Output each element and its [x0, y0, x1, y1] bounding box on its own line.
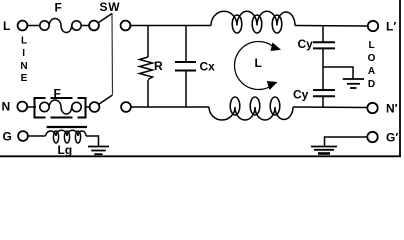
switch SW link bar [111, 13, 114, 95]
wire Lg to ground [86, 136, 99, 146]
capacitor Cy bottom plates [313, 90, 335, 96]
svg-text:D: D [368, 79, 375, 90]
terminal N' [367, 103, 377, 113]
choke L flux arrow [234, 42, 281, 90]
label Cy bottom [293, 88, 309, 102]
wire fuse to switch [81, 25, 89, 27]
resistor R [140, 57, 153, 80]
label F (bottom fuse) [54, 87, 61, 101]
svg-text:E: E [21, 73, 28, 84]
svg-text:Cx: Cx [200, 60, 216, 74]
ground (Cy midpoint) [343, 79, 364, 88]
svg-text:L: L [3, 19, 10, 33]
label F (top fuse) [55, 1, 62, 15]
label L (choke) [255, 56, 262, 70]
capacitor Cy branch wire upper [322, 26, 324, 42]
wire top rail switch to choke [130, 25, 211, 27]
label G' [386, 131, 398, 145]
svg-text:I: I [22, 48, 25, 59]
switch SW bottom pole [90, 95, 131, 112]
label Lg [58, 143, 73, 157]
label L' [386, 20, 396, 34]
capacitor Cy top plates [313, 42, 335, 48]
choke L bottom winding [209, 97, 293, 120]
choke L top winding [211, 11, 295, 33]
label LINE [20, 36, 27, 85]
label Cy top [298, 37, 314, 51]
fuse F top [40, 19, 81, 33]
terminal L [18, 21, 28, 31]
inductor Lg core bar [47, 126, 87, 128]
svg-text:L: L [255, 56, 262, 70]
wire L terminal to fuse [27, 25, 39, 27]
label LOAD [368, 40, 376, 90]
switch SW top pole [89, 14, 130, 31]
wire fuse box to switch [86, 106, 90, 108]
svg-text:R: R [154, 59, 163, 73]
resistor R branch wires [147, 26, 149, 108]
inductor Lg winding [46, 130, 87, 143]
label Cx [200, 60, 216, 74]
svg-text:L: L [368, 40, 374, 51]
capacitor Cy branch wire lower [322, 96, 324, 107]
wire bottom rail switch to choke [131, 106, 209, 108]
svg-text:O: O [368, 53, 376, 64]
svg-text:A: A [368, 66, 375, 77]
fuse F bottom [40, 100, 81, 114]
border frame [0, 0, 401, 157]
wire top rail choke to L' [295, 25, 368, 28]
wire N terminal to fuse box [27, 106, 36, 108]
svg-text:N: N [20, 61, 27, 72]
label SW [100, 0, 121, 14]
terminal G' [367, 132, 377, 142]
label L [3, 19, 10, 33]
svg-text:Cy: Cy [298, 37, 314, 51]
svg-text:N: N [2, 100, 11, 114]
capacitor Cx branch wires [185, 26, 187, 108]
wire G' to ground [325, 137, 368, 146]
wire between Cy capacitors [322, 48, 324, 90]
svg-text:Cy: Cy [293, 88, 309, 102]
svg-text:L′: L′ [386, 20, 396, 34]
wire Cy junction to ground [323, 67, 353, 78]
svg-text:Lg: Lg [58, 143, 73, 157]
svg-text:G: G [3, 130, 12, 144]
label G [3, 130, 12, 144]
svg-text:N′: N′ [386, 102, 398, 116]
capacitor Cx plates [175, 62, 196, 71]
label N [2, 100, 11, 114]
ground (load side) [311, 147, 337, 154]
svg-text:G′: G′ [386, 131, 398, 145]
svg-text:L: L [21, 36, 27, 47]
optional fuse dashed box [35, 97, 86, 119]
svg-text:F: F [55, 1, 62, 15]
label N' [386, 102, 398, 116]
terminal G [18, 131, 28, 141]
terminal L' [368, 21, 378, 31]
wire G terminal to Lg [28, 135, 46, 137]
terminal N [17, 102, 27, 112]
ground (Lg) [88, 147, 109, 155]
svg-text:SW: SW [100, 0, 121, 14]
wire bottom rail choke to N' [293, 106, 367, 109]
label R [154, 59, 163, 73]
